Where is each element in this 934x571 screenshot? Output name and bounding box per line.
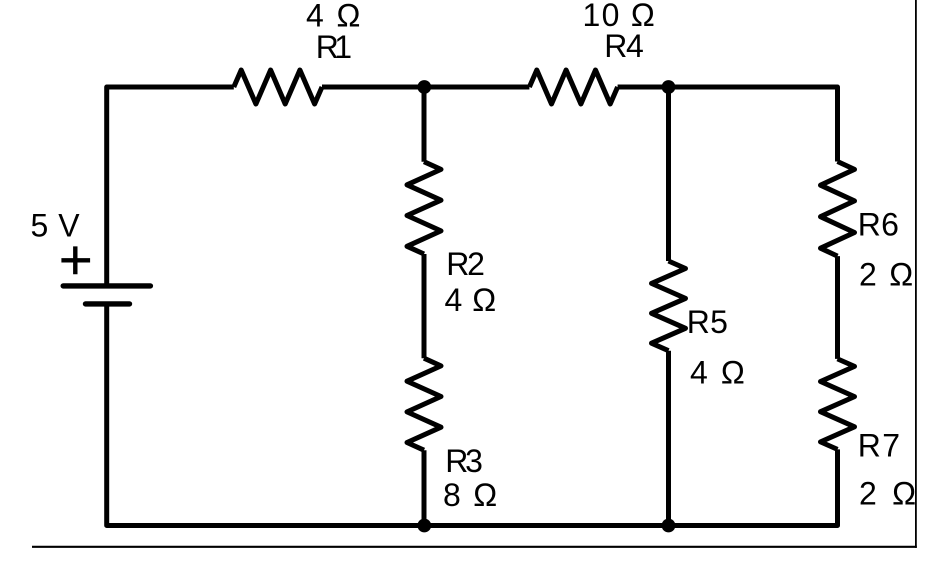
svg-text:2 Ω: 2 Ω bbox=[859, 475, 916, 511]
wire R2 to R3 bbox=[422, 254, 427, 358]
battery V1 plus plate (long) bbox=[63, 283, 150, 288]
frame bottom spine bbox=[32, 546, 917, 548]
wire node B down to R5 bbox=[666, 87, 671, 261]
resistor R1 bbox=[234, 70, 322, 104]
svg-text:R1: R1 bbox=[316, 29, 352, 65]
svg-text:R7: R7 bbox=[858, 428, 900, 464]
battery plus sign bbox=[61, 246, 90, 274]
svg-text:R3: R3 bbox=[445, 443, 483, 479]
wire bottom rail from R7 to battery minus bbox=[107, 306, 838, 525]
wire R5 to bottom node D bbox=[666, 351, 671, 526]
resistor R2 bbox=[407, 162, 441, 254]
node B (top right-middle) bbox=[662, 80, 676, 94]
wire R4 to top-right corner and down bbox=[618, 87, 838, 162]
resistor R5 bbox=[652, 261, 686, 351]
node A (top middle) bbox=[417, 80, 431, 94]
wire node A down to R2 bbox=[422, 87, 427, 162]
resistor R7 bbox=[821, 359, 855, 450]
svg-text:8 Ω: 8 Ω bbox=[443, 477, 497, 513]
node C (bottom middle) bbox=[417, 519, 431, 533]
resistor R6 bbox=[821, 162, 855, 257]
svg-text:R6: R6 bbox=[858, 206, 899, 242]
svg-text:4 Ω: 4 Ω bbox=[445, 282, 497, 318]
svg-text:5 V: 5 V bbox=[31, 208, 81, 244]
battery V1 minus plate (short) bbox=[86, 301, 130, 306]
node D (bottom right-middle) bbox=[662, 519, 676, 533]
wire R3 to bottom node C bbox=[422, 450, 427, 525]
wire top-left: left rail up and across to R1 bbox=[107, 87, 234, 284]
resistor R4 bbox=[529, 70, 617, 104]
resistor R3 bbox=[407, 358, 441, 450]
wire R1 to node A bbox=[322, 85, 529, 90]
frame right spine bbox=[915, 0, 917, 548]
wire R6 to R7 bbox=[835, 256, 840, 359]
svg-text:R2: R2 bbox=[446, 246, 485, 282]
svg-text:R4: R4 bbox=[604, 28, 644, 64]
svg-text:4 Ω: 4 Ω bbox=[690, 354, 745, 390]
svg-text:2 Ω: 2 Ω bbox=[859, 256, 913, 292]
svg-text:R5: R5 bbox=[687, 304, 728, 340]
